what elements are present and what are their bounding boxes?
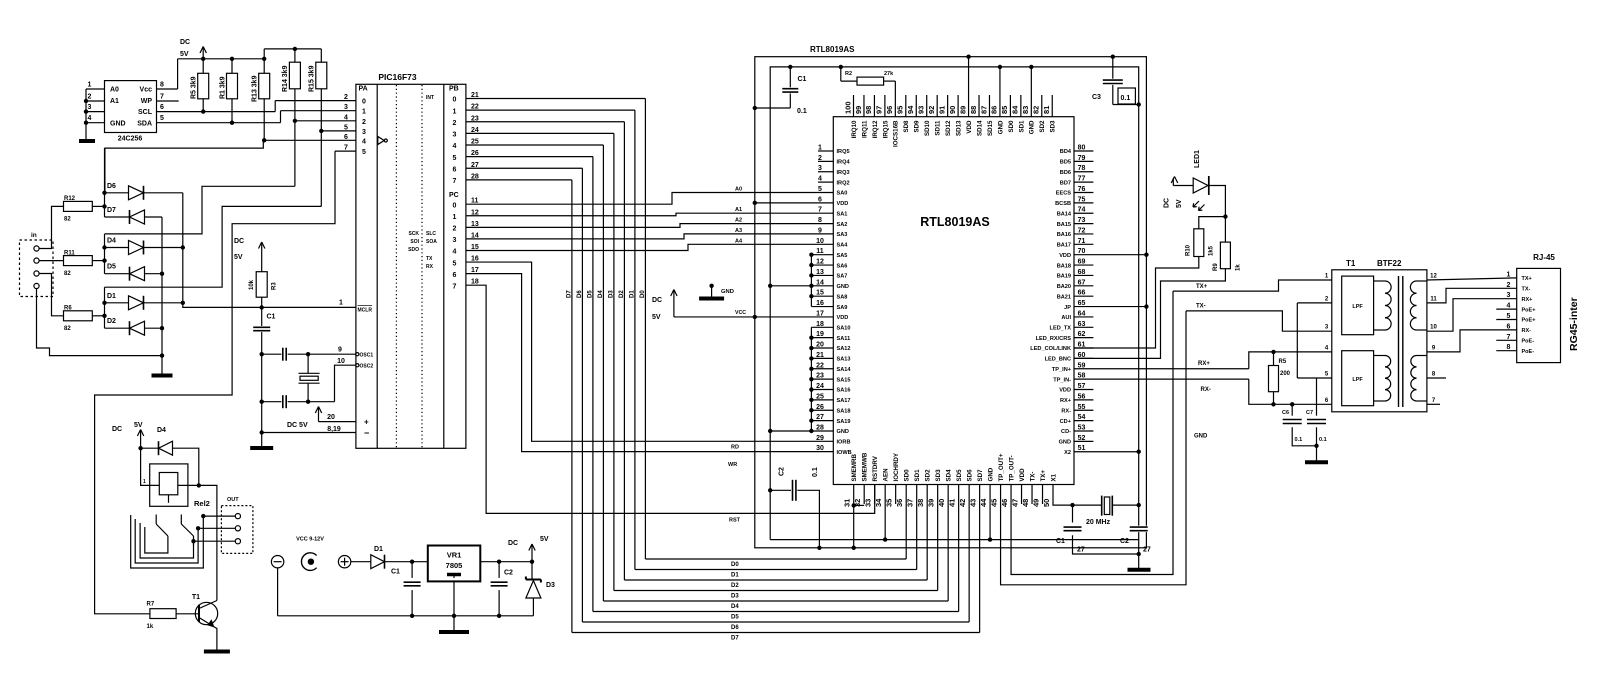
svg-text:A0: A0: [735, 187, 742, 193]
svg-text:A3: A3: [735, 228, 742, 234]
svg-text:C2: C2: [1120, 538, 1129, 545]
svg-text:Rel2: Rel2: [194, 499, 210, 508]
svg-text:R14 3k9: R14 3k9: [282, 65, 289, 92]
svg-text:CD+: CD+: [1060, 419, 1072, 425]
svg-text:1: 1: [453, 108, 457, 115]
svg-text:TX: TX: [426, 256, 433, 262]
svg-text:SMEMRB: SMEMRB: [851, 453, 858, 481]
svg-text:20: 20: [327, 414, 335, 421]
svg-text:11: 11: [1430, 296, 1437, 302]
svg-text:200: 200: [1280, 371, 1291, 377]
svg-text:C6: C6: [1282, 410, 1289, 416]
svg-text:85: 85: [1000, 106, 1009, 114]
svg-text:5: 5: [160, 115, 164, 122]
svg-text:5: 5: [344, 124, 348, 131]
svg-text:4: 4: [362, 138, 366, 145]
svg-text:SD10: SD10: [924, 120, 931, 136]
svg-text:27k: 27k: [884, 71, 894, 77]
svg-text:D5: D5: [587, 290, 593, 298]
svg-text:83: 83: [1021, 106, 1030, 114]
svg-text:SA8: SA8: [837, 294, 848, 300]
svg-text:12: 12: [1430, 274, 1437, 280]
svg-text:7: 7: [453, 178, 457, 185]
svg-text:TP_IN+: TP_IN+: [1052, 367, 1072, 373]
svg-text:91: 91: [937, 106, 946, 114]
svg-text:5: 5: [453, 260, 457, 267]
svg-text:D3: D3: [731, 594, 739, 600]
svg-text:R10: R10: [1186, 244, 1192, 256]
svg-text:0.1: 0.1: [1319, 437, 1327, 443]
svg-text:R2: R2: [845, 71, 852, 77]
svg-text:LED_RX/CRS: LED_RX/CRS: [1036, 336, 1072, 342]
svg-text:1: 1: [362, 109, 366, 116]
svg-text:JP: JP: [1064, 305, 1071, 311]
svg-text:2: 2: [88, 94, 92, 101]
svg-text:1k: 1k: [1236, 264, 1242, 271]
svg-text:LED_COL/LINK: LED_COL/LINK: [1030, 346, 1071, 352]
svg-text:A0: A0: [110, 87, 119, 94]
svg-text:VR1: VR1: [447, 551, 462, 560]
svg-text:10: 10: [1430, 325, 1437, 331]
svg-text:SD8: SD8: [903, 120, 910, 133]
svg-text:0.1: 0.1: [1121, 95, 1131, 102]
svg-text:LPF: LPF: [1352, 377, 1363, 383]
svg-text:BD7: BD7: [1060, 180, 1071, 186]
svg-text:SMEMWB: SMEMWB: [862, 452, 869, 481]
svg-text:C1: C1: [267, 314, 276, 321]
svg-text:C2: C2: [504, 570, 513, 577]
svg-text:BA21: BA21: [1057, 294, 1071, 300]
svg-text:6: 6: [344, 134, 348, 141]
svg-text:SA5: SA5: [837, 253, 848, 259]
svg-text:100: 100: [843, 101, 852, 114]
svg-text:SA19: SA19: [837, 419, 851, 425]
svg-text:49: 49: [1031, 499, 1040, 507]
svg-text:3: 3: [88, 104, 92, 111]
svg-text:82: 82: [64, 326, 71, 332]
svg-text:89: 89: [958, 106, 967, 114]
svg-text:SA11: SA11: [837, 336, 851, 342]
svg-text:LED_BNC: LED_BNC: [1045, 357, 1071, 363]
svg-text:SA18: SA18: [837, 408, 851, 414]
svg-text:D1: D1: [629, 290, 635, 298]
svg-text:Vcc: Vcc: [140, 87, 153, 94]
svg-text:SDO: SDO: [408, 247, 419, 253]
svg-text:3: 3: [453, 237, 457, 244]
svg-text:D5: D5: [731, 615, 739, 621]
svg-text:SDA: SDA: [137, 120, 152, 127]
svg-text:29: 29: [816, 435, 824, 442]
svg-text:42: 42: [958, 499, 967, 507]
svg-text:IOCS16B: IOCS16B: [893, 120, 900, 147]
svg-text:IRQ12: IRQ12: [872, 120, 879, 138]
svg-text:PA: PA: [359, 86, 368, 93]
svg-text:6: 6: [453, 272, 457, 279]
svg-text:A1: A1: [110, 98, 119, 105]
svg-text:VDD: VDD: [837, 201, 849, 207]
svg-text:IOCHRDY: IOCHRDY: [893, 452, 900, 481]
svg-text:X1: X1: [1050, 473, 1057, 481]
svg-text:D4: D4: [731, 604, 739, 610]
svg-text:GND: GND: [997, 120, 1004, 134]
svg-text:0.1: 0.1: [1295, 437, 1303, 443]
svg-text:D6: D6: [731, 625, 739, 631]
svg-text:PC: PC: [449, 192, 459, 199]
svg-text:0: 0: [362, 99, 366, 106]
svg-text:SD3: SD3: [1050, 120, 1057, 133]
svg-text:3: 3: [453, 132, 457, 139]
svg-text:SD5: SD5: [956, 469, 963, 482]
svg-text:SA7: SA7: [837, 274, 848, 280]
svg-text:20 MHz: 20 MHz: [1086, 519, 1111, 526]
svg-text:GND: GND: [1194, 434, 1208, 440]
svg-text:CD-: CD-: [1061, 429, 1071, 435]
svg-text:D1: D1: [374, 546, 383, 553]
svg-text:7: 7: [160, 94, 164, 101]
svg-text:D2: D2: [619, 290, 625, 298]
svg-text:PIC16F73: PIC16F73: [378, 72, 417, 82]
svg-text:EECS: EECS: [1056, 191, 1072, 197]
svg-text:0: 0: [453, 97, 457, 104]
svg-text:8: 8: [818, 217, 822, 224]
svg-text:5: 5: [362, 149, 366, 156]
svg-text:38: 38: [916, 499, 925, 507]
svg-text:RG45-inter: RG45-inter: [1568, 297, 1580, 351]
svg-text:PoE+: PoE+: [1522, 318, 1536, 324]
svg-text:82: 82: [64, 217, 71, 223]
svg-text:SLC: SLC: [426, 231, 436, 237]
svg-text:D7: D7: [107, 207, 116, 214]
svg-text:5V: 5V: [652, 314, 661, 321]
svg-text:BA16: BA16: [1057, 232, 1071, 238]
svg-text:C7: C7: [1306, 410, 1313, 416]
svg-text:0.1: 0.1: [797, 108, 807, 115]
svg-text:6: 6: [160, 104, 164, 111]
svg-text:95: 95: [896, 106, 905, 114]
svg-text:OSC1: OSC1: [360, 353, 374, 359]
svg-text:93: 93: [917, 106, 926, 114]
svg-text:D7: D7: [731, 636, 739, 642]
svg-text:1: 1: [339, 300, 343, 307]
svg-text:1: 1: [453, 214, 457, 221]
svg-text:5V: 5V: [540, 536, 549, 543]
svg-text:TX+: TX+: [1522, 276, 1532, 282]
svg-text:R11: R11: [64, 251, 75, 257]
svg-text:BA14: BA14: [1057, 211, 1072, 217]
svg-text:SD4: SD4: [946, 469, 953, 482]
svg-text:D6: D6: [577, 290, 583, 298]
svg-text:SCL: SCL: [138, 109, 153, 116]
svg-text:VCC 9-12V: VCC 9-12V: [296, 537, 324, 543]
svg-text:AUI: AUI: [1061, 315, 1071, 321]
svg-text:45: 45: [989, 499, 998, 507]
svg-text:5: 5: [818, 186, 822, 193]
svg-text:99: 99: [854, 106, 863, 114]
svg-text:1: 1: [143, 479, 146, 485]
svg-text:VDD: VDD: [837, 315, 849, 321]
svg-text:A1: A1: [735, 207, 742, 213]
svg-text:4: 4: [453, 249, 457, 256]
svg-text:8,19: 8,19: [327, 426, 341, 433]
svg-text:5: 5: [453, 155, 457, 162]
svg-text:RX+: RX+: [1522, 297, 1533, 303]
svg-text:SA2: SA2: [837, 222, 848, 228]
svg-text:in: in: [31, 232, 37, 239]
svg-text:R6: R6: [64, 306, 72, 312]
svg-text:5V: 5V: [234, 254, 243, 261]
svg-text:RD: RD: [731, 445, 739, 451]
svg-text:1: 1: [1507, 271, 1511, 278]
svg-text:SA4: SA4: [837, 243, 849, 249]
svg-text:47: 47: [1010, 499, 1019, 507]
svg-text:SA3: SA3: [837, 232, 848, 238]
svg-text:27: 27: [1143, 547, 1151, 554]
svg-text:SA0: SA0: [837, 191, 848, 197]
svg-text:C1: C1: [798, 76, 807, 83]
svg-text:D3: D3: [546, 582, 555, 589]
svg-text:RJ-45: RJ-45: [1533, 253, 1555, 262]
svg-text:4: 4: [453, 143, 457, 150]
svg-text:98: 98: [864, 106, 873, 114]
svg-text:87: 87: [979, 106, 988, 114]
svg-text:R1 3k9: R1 3k9: [220, 76, 227, 99]
svg-text:VDD: VDD: [1019, 468, 1026, 482]
svg-text:RX+: RX+: [1060, 398, 1072, 404]
svg-text:DC: DC: [1164, 198, 1171, 208]
svg-text:GND: GND: [110, 120, 126, 127]
svg-text:TX+: TX+: [1040, 470, 1047, 482]
svg-text:TP_OUT+: TP_OUT+: [998, 453, 1005, 481]
svg-text:C1: C1: [1056, 538, 1065, 545]
svg-text:D1: D1: [107, 293, 116, 300]
svg-text:D2: D2: [107, 318, 116, 325]
svg-text:5V: 5V: [1176, 199, 1183, 208]
svg-text:RST: RST: [729, 518, 741, 524]
svg-text:SD11: SD11: [935, 120, 942, 136]
svg-text:RX+: RX+: [1198, 361, 1210, 367]
svg-text:94: 94: [906, 105, 915, 114]
svg-text:A2: A2: [735, 218, 742, 224]
svg-text:41: 41: [947, 499, 956, 507]
svg-text:SD12: SD12: [945, 120, 952, 136]
svg-text:GND: GND: [987, 467, 994, 481]
svg-text:VDD: VDD: [1059, 253, 1071, 259]
svg-text:4: 4: [344, 114, 348, 121]
svg-text:D3: D3: [608, 290, 614, 298]
svg-text:SA13: SA13: [837, 357, 851, 363]
svg-text:GND: GND: [721, 289, 734, 295]
svg-text:SA1: SA1: [837, 211, 848, 217]
svg-text:PoE-: PoE-: [1522, 349, 1535, 355]
svg-text:30: 30: [816, 445, 824, 452]
svg-text:D1: D1: [731, 573, 739, 579]
svg-text:TX-: TX-: [1196, 304, 1206, 310]
svg-text:VDD: VDD: [1059, 388, 1071, 394]
svg-text:10: 10: [337, 358, 345, 365]
svg-text:7: 7: [453, 283, 457, 290]
svg-text:+: +: [364, 418, 369, 427]
svg-text:A4: A4: [735, 238, 743, 244]
svg-text:2: 2: [453, 226, 457, 233]
svg-text:PoE+: PoE+: [1522, 307, 1536, 313]
svg-text:SD15: SD15: [987, 120, 994, 136]
svg-text:IRQ3: IRQ3: [837, 170, 850, 176]
svg-text:BA19: BA19: [1057, 274, 1071, 280]
svg-text:R3: R3: [272, 282, 278, 290]
svg-text:SD1: SD1: [1018, 120, 1025, 133]
svg-text:SOI: SOI: [410, 239, 419, 245]
svg-text:INT: INT: [426, 95, 434, 101]
svg-text:D4: D4: [157, 427, 166, 434]
svg-text:4: 4: [88, 115, 92, 122]
svg-text:7: 7: [344, 145, 348, 152]
svg-text:C1: C1: [391, 569, 400, 576]
svg-text:RSTDRV: RSTDRV: [872, 455, 879, 481]
svg-text:7805: 7805: [446, 561, 463, 570]
svg-text:C2: C2: [779, 467, 786, 476]
svg-text:DC: DC: [112, 426, 122, 433]
svg-text:SD14: SD14: [976, 120, 983, 136]
svg-text:96: 96: [885, 106, 894, 114]
svg-text:SA9: SA9: [837, 305, 848, 311]
svg-text:D6: D6: [107, 183, 116, 190]
svg-text:RX-: RX-: [1201, 387, 1211, 393]
svg-text:IRQ10: IRQ10: [851, 120, 858, 138]
svg-text:D4: D4: [107, 238, 116, 245]
svg-text:DC 5V: DC 5V: [287, 422, 308, 429]
svg-text:T1: T1: [1346, 259, 1356, 268]
svg-text:2: 2: [453, 120, 457, 127]
svg-text:VCC: VCC: [735, 310, 746, 316]
svg-text:GND: GND: [1059, 440, 1071, 446]
svg-text:1: 1: [88, 82, 92, 89]
svg-text:BA20: BA20: [1057, 284, 1071, 290]
svg-text:92: 92: [927, 106, 936, 114]
svg-text:D7: D7: [566, 290, 572, 298]
svg-text:T1: T1: [192, 594, 200, 601]
svg-text:GND: GND: [837, 284, 849, 290]
svg-text:0: 0: [453, 202, 457, 209]
svg-text:8: 8: [160, 82, 164, 89]
svg-text:MCLR: MCLR: [358, 308, 373, 314]
svg-text:TP_IN-: TP_IN-: [1053, 377, 1071, 383]
svg-text:7: 7: [818, 207, 822, 214]
svg-text:OUT: OUT: [227, 497, 239, 503]
svg-text:9: 9: [338, 347, 342, 354]
svg-text:RX-: RX-: [1061, 408, 1071, 414]
svg-text:IRQ2: IRQ2: [837, 180, 850, 186]
svg-text:SA10: SA10: [837, 325, 851, 331]
svg-text:IRQ5: IRQ5: [837, 149, 850, 155]
svg-text:DC: DC: [652, 297, 662, 304]
svg-text:D4: D4: [598, 290, 604, 298]
svg-text:37: 37: [905, 499, 914, 507]
svg-text:84: 84: [1011, 105, 1020, 114]
svg-text:GND: GND: [1029, 120, 1036, 134]
svg-text:R12: R12: [64, 196, 76, 202]
svg-text:44: 44: [979, 498, 988, 507]
svg-text:R15 3k9: R15 3k9: [309, 65, 316, 92]
svg-text:RTL8019AS: RTL8019AS: [920, 215, 989, 229]
svg-text:SA17: SA17: [837, 398, 851, 404]
svg-text:OSC2: OSC2: [360, 364, 374, 370]
svg-text:R13 3k9: R13 3k9: [252, 75, 259, 102]
svg-text:SD13: SD13: [956, 120, 963, 136]
svg-text:IOWB: IOWB: [837, 450, 852, 456]
svg-text:WP: WP: [141, 98, 153, 105]
svg-text:81: 81: [1042, 106, 1051, 114]
svg-text:IORB: IORB: [837, 440, 851, 446]
svg-text:PB: PB: [449, 86, 459, 93]
svg-text:50: 50: [1042, 499, 1051, 507]
svg-text:SD0: SD0: [1008, 120, 1015, 133]
svg-text:36: 36: [895, 499, 904, 507]
svg-text:BD5: BD5: [1060, 160, 1071, 166]
svg-text:DC: DC: [234, 238, 244, 245]
svg-text:35: 35: [884, 499, 893, 507]
svg-text:R9: R9: [1213, 263, 1219, 271]
svg-text:3: 3: [344, 104, 348, 111]
svg-text:1k5: 1k5: [1209, 245, 1215, 256]
svg-text:0.1: 0.1: [812, 467, 819, 477]
svg-text:9: 9: [818, 227, 822, 234]
svg-text:SCK: SCK: [408, 231, 419, 237]
svg-text:RX-: RX-: [1522, 328, 1532, 334]
svg-text:97: 97: [875, 106, 884, 114]
svg-text:RTL8019AS: RTL8019AS: [810, 45, 855, 54]
svg-text:BD4: BD4: [1060, 149, 1072, 155]
svg-text:5V: 5V: [180, 51, 189, 58]
svg-text:33: 33: [863, 499, 872, 507]
svg-text:VDD: VDD: [966, 120, 973, 134]
svg-text:31: 31: [843, 499, 852, 507]
svg-text:6: 6: [453, 166, 457, 173]
svg-text:10k: 10k: [249, 279, 255, 290]
svg-text:PoE-: PoE-: [1522, 339, 1535, 345]
svg-text:−: −: [364, 428, 369, 438]
svg-text:SA16: SA16: [837, 388, 851, 394]
svg-text:SD7: SD7: [977, 469, 984, 482]
svg-text:SA14: SA14: [837, 367, 852, 373]
svg-text:BA15: BA15: [1057, 222, 1071, 228]
svg-text:2: 2: [344, 94, 348, 101]
svg-text:5V: 5V: [134, 422, 143, 429]
svg-text:LED_TX: LED_TX: [1050, 325, 1072, 331]
svg-text:X2: X2: [1064, 450, 1071, 456]
svg-text:48: 48: [1021, 499, 1030, 507]
svg-text:86: 86: [990, 106, 999, 114]
svg-text:40: 40: [937, 499, 946, 507]
svg-text:TP_OUT-: TP_OUT-: [1008, 455, 1015, 481]
svg-text:43: 43: [968, 499, 977, 507]
svg-text:AEN: AEN: [883, 468, 890, 482]
svg-text:90: 90: [948, 106, 957, 114]
svg-text:LED1: LED1: [1194, 150, 1201, 168]
svg-text:TX-: TX-: [1029, 472, 1036, 482]
svg-text:IRQ4: IRQ4: [837, 160, 851, 166]
svg-text:39: 39: [926, 499, 935, 507]
svg-text:D0: D0: [640, 290, 646, 298]
svg-text:1k: 1k: [147, 624, 154, 630]
svg-text:TX-: TX-: [1522, 287, 1531, 293]
svg-text:D5: D5: [107, 264, 116, 271]
svg-text:TX+: TX+: [1196, 284, 1208, 290]
svg-text:SOA: SOA: [426, 239, 437, 245]
svg-text:D2: D2: [731, 583, 739, 589]
svg-text:88: 88: [969, 106, 978, 114]
svg-text:SA12: SA12: [837, 346, 851, 352]
svg-text:SD1: SD1: [914, 469, 921, 482]
